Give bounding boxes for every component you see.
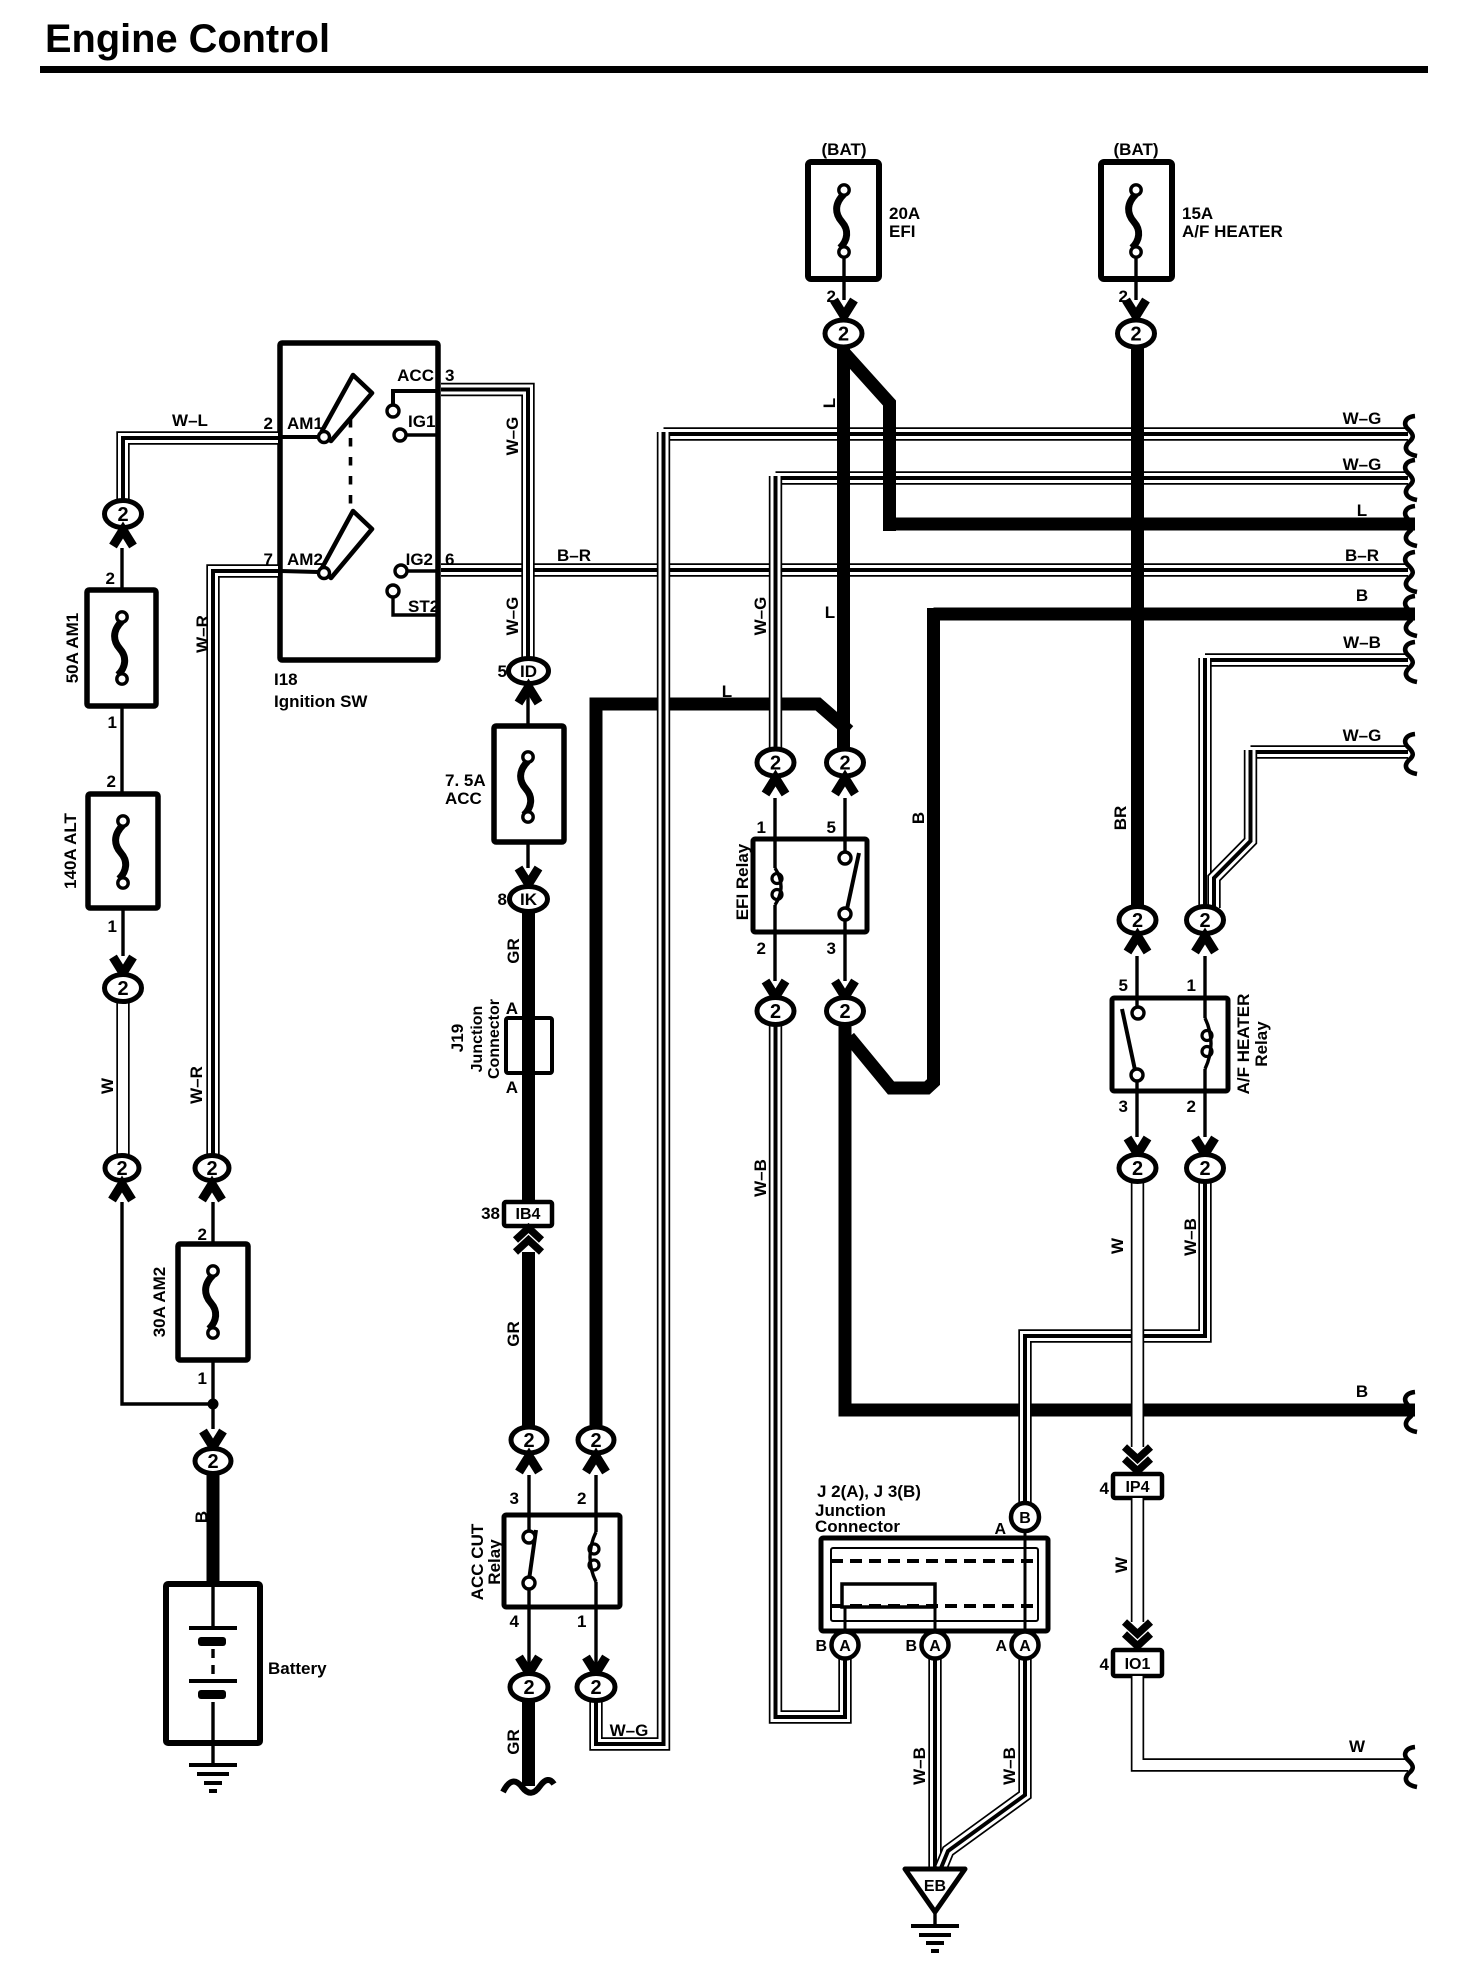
svg-text:1: 1: [198, 1369, 207, 1388]
svg-text:4: 4: [510, 1612, 520, 1631]
svg-text:B: B: [815, 1638, 827, 1655]
svg-text:GR: GR: [504, 938, 523, 964]
svg-text:IO1: IO1: [1125, 1656, 1151, 1673]
svg-text:W–G: W–G: [1343, 455, 1382, 474]
svg-text:W: W: [98, 1077, 117, 1094]
svg-text:IG1: IG1: [408, 412, 435, 431]
svg-text:2: 2: [838, 324, 849, 346]
svg-text:ACC: ACC: [445, 789, 482, 808]
svg-text:7. 5A: 7. 5A: [445, 771, 486, 790]
svg-text:2: 2: [117, 978, 128, 1000]
svg-text:2: 2: [207, 1451, 218, 1473]
svg-text:2: 2: [577, 1489, 586, 1508]
svg-text:2: 2: [107, 772, 116, 791]
svg-text:Battery: Battery: [268, 1659, 327, 1678]
svg-text:J19: J19: [448, 1024, 467, 1052]
svg-text:(BAT): (BAT): [1114, 140, 1159, 159]
svg-text:A: A: [506, 999, 518, 1018]
svg-text:A/F HEATER: A/F HEATER: [1234, 994, 1253, 1095]
svg-text:2: 2: [106, 569, 115, 588]
svg-text:2: 2: [264, 414, 273, 433]
svg-text:A: A: [839, 1638, 851, 1655]
svg-text:38: 38: [481, 1204, 500, 1223]
svg-text:W: W: [1112, 1556, 1131, 1573]
svg-text:I18: I18: [274, 670, 298, 689]
svg-text:GR: GR: [504, 1729, 523, 1755]
svg-text:Ignition SW: Ignition SW: [274, 692, 368, 711]
svg-text:IK: IK: [520, 890, 538, 909]
svg-text:3: 3: [1119, 1097, 1128, 1116]
svg-text:AM1: AM1: [287, 414, 323, 433]
svg-text:1: 1: [577, 1612, 586, 1631]
svg-text:A: A: [994, 1521, 1006, 1538]
svg-text:2: 2: [1187, 1097, 1196, 1116]
svg-text:B: B: [1356, 586, 1368, 605]
svg-text:Connector: Connector: [815, 1517, 900, 1536]
svg-text:Junction: Junction: [469, 1006, 486, 1073]
svg-text:J 2(A), J 3(B): J 2(A), J 3(B): [817, 1482, 921, 1501]
svg-text:4: 4: [1100, 1655, 1110, 1674]
svg-text:W–R: W–R: [187, 1066, 206, 1104]
svg-text:2: 2: [827, 287, 836, 306]
svg-text:15A: 15A: [1182, 204, 1213, 223]
svg-text:Relay: Relay: [1252, 1021, 1271, 1067]
svg-text:7: 7: [264, 550, 273, 569]
svg-text:W–B: W–B: [910, 1747, 929, 1785]
svg-text:EFI Relay: EFI Relay: [733, 843, 752, 920]
svg-text:1: 1: [757, 818, 766, 837]
svg-text:5: 5: [498, 662, 507, 681]
svg-text:IB4: IB4: [516, 1206, 541, 1223]
svg-text:5: 5: [1119, 976, 1128, 995]
svg-text:20A: 20A: [889, 204, 920, 223]
svg-text:ACC: ACC: [397, 366, 434, 385]
svg-text:3: 3: [827, 939, 836, 958]
svg-text:2: 2: [1130, 324, 1141, 346]
svg-text:ID: ID: [520, 662, 537, 681]
svg-text:A: A: [995, 1638, 1007, 1655]
svg-text:5: 5: [827, 818, 836, 837]
svg-text:AM2: AM2: [287, 550, 323, 569]
svg-text:A/F HEATER: A/F HEATER: [1182, 222, 1283, 241]
svg-text:1: 1: [1187, 976, 1196, 995]
svg-text:IG2: IG2: [406, 550, 433, 569]
svg-text:W–B: W–B: [1343, 633, 1381, 652]
svg-text:Connector: Connector: [486, 999, 503, 1079]
svg-text:50A AM1: 50A AM1: [63, 613, 82, 684]
svg-text:A: A: [929, 1638, 941, 1655]
svg-text:A: A: [1019, 1638, 1031, 1655]
svg-text:L: L: [1357, 501, 1367, 520]
svg-text:W–G: W–G: [503, 597, 522, 636]
svg-text:W–B: W–B: [1000, 1747, 1019, 1785]
svg-text:2: 2: [523, 1677, 534, 1699]
svg-text:(BAT): (BAT): [822, 140, 867, 159]
svg-text:W–G: W–G: [1343, 409, 1382, 428]
svg-text:2: 2: [198, 1225, 207, 1244]
svg-text:BR: BR: [1111, 806, 1130, 831]
svg-text:B: B: [1019, 1510, 1031, 1527]
svg-text:B: B: [192, 1511, 211, 1523]
svg-text:3: 3: [510, 1489, 519, 1508]
svg-text:2: 2: [1119, 287, 1128, 306]
svg-text:W: W: [1108, 1237, 1127, 1254]
svg-text:6: 6: [445, 550, 454, 569]
svg-text:2: 2: [757, 939, 766, 958]
svg-text:W–G: W–G: [610, 1721, 649, 1740]
svg-text:3: 3: [445, 366, 454, 385]
svg-text:30A AM2: 30A AM2: [150, 1267, 169, 1338]
svg-text:GR: GR: [504, 1321, 523, 1347]
svg-text:2: 2: [1199, 1158, 1210, 1180]
svg-text:1: 1: [108, 713, 117, 732]
svg-text:IP4: IP4: [1125, 1479, 1149, 1496]
svg-text:EFI: EFI: [889, 222, 915, 241]
svg-text:B: B: [1356, 1382, 1368, 1401]
svg-text:2: 2: [839, 1001, 850, 1023]
svg-text:2: 2: [770, 1001, 781, 1023]
svg-text:B: B: [905, 1638, 917, 1655]
svg-text:A: A: [506, 1078, 518, 1097]
svg-text:4: 4: [1100, 1479, 1110, 1498]
svg-text:ST2: ST2: [408, 597, 439, 616]
svg-text:W–L: W–L: [172, 411, 208, 430]
svg-text:W–G: W–G: [503, 417, 522, 456]
svg-text:2: 2: [1132, 1158, 1143, 1180]
svg-text:B: B: [909, 812, 928, 824]
svg-text:W–B: W–B: [1181, 1218, 1200, 1256]
svg-text:W–G: W–G: [1343, 726, 1382, 745]
svg-text:W–G: W–G: [751, 597, 770, 636]
svg-text:W–B: W–B: [751, 1159, 770, 1197]
svg-text:Engine Control: Engine Control: [45, 17, 330, 61]
svg-text:140A ALT: 140A ALT: [61, 812, 80, 889]
svg-text:W–R: W–R: [193, 615, 212, 653]
svg-text:8: 8: [498, 890, 507, 909]
svg-text:B–R: B–R: [1345, 546, 1379, 565]
svg-text:W: W: [1349, 1737, 1366, 1756]
svg-text:EB: EB: [924, 1878, 946, 1895]
svg-text:B–R: B–R: [557, 546, 591, 565]
svg-text:L: L: [722, 682, 732, 701]
svg-text:L: L: [820, 398, 839, 408]
svg-text:2: 2: [590, 1677, 601, 1699]
svg-text:1: 1: [108, 917, 117, 936]
svg-text:Relay: Relay: [485, 1539, 504, 1585]
svg-text:L: L: [825, 603, 835, 622]
